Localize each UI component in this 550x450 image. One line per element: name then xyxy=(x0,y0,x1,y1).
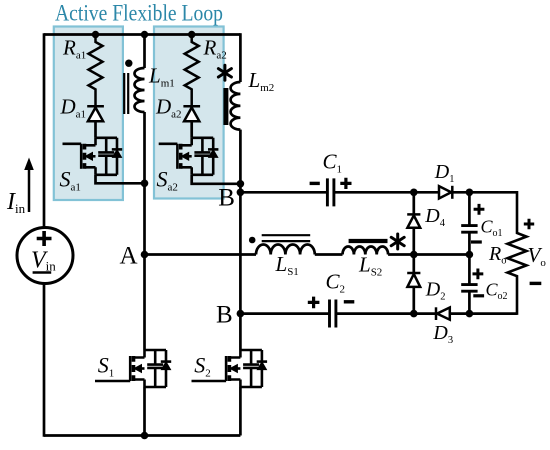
C1 minus sign xyxy=(310,182,320,185)
transformer Lm1 core xyxy=(124,73,128,114)
svg-text:A: A xyxy=(120,243,138,270)
node dot D2 bottom xyxy=(410,310,418,318)
wire Co2 bottom lead xyxy=(468,291,471,313)
inductor Lm1 winding xyxy=(135,68,145,112)
C2 minus sign xyxy=(344,300,355,303)
Vo minus sign xyxy=(530,282,542,285)
resistor Ra2 xyxy=(185,35,199,107)
node dot top Lm1 xyxy=(141,31,148,38)
capacitor C1 xyxy=(327,178,334,206)
node A dot xyxy=(141,251,149,259)
wire top corner to Lm2 xyxy=(239,33,242,82)
wire left rail lower xyxy=(43,284,46,437)
wire top to Lm1 xyxy=(143,35,146,69)
wire S2 source to bottom rail xyxy=(239,387,242,436)
wire S1 gate lead xyxy=(95,380,130,383)
Vo plus sign xyxy=(524,219,534,229)
highlight box around Ra1/Da1/Sa1 branch xyxy=(54,27,123,201)
wire C1 to D1 xyxy=(334,191,439,194)
resistor Ro with output rail xyxy=(508,191,527,315)
LS1 polarity dot xyxy=(249,237,256,244)
node dot Sa2 source junction xyxy=(237,180,245,188)
wire Co1 top lead xyxy=(468,192,471,225)
label Vin xyxy=(31,248,56,274)
wire S2 gate lead xyxy=(192,380,227,383)
diode D4 xyxy=(407,192,420,254)
capacitor C2 xyxy=(330,300,336,328)
node dot top Ra1 xyxy=(92,31,99,38)
voltage source Vin xyxy=(17,228,73,284)
highlight box around Ra2/Da2/Sa2 branch xyxy=(154,27,224,199)
diode D1 xyxy=(439,186,452,199)
transistor S2 xyxy=(226,350,267,387)
current arrow Iin xyxy=(24,158,34,213)
wire Co2 top lead xyxy=(468,255,471,285)
inductor LS2 core bar xyxy=(349,239,388,243)
Co2 plus sign xyxy=(473,269,484,280)
wire B row to C2 xyxy=(240,312,329,315)
wire node A to S1 drain xyxy=(143,255,146,351)
Co2 minus sign xyxy=(473,294,484,297)
transformer Lm1 polarity dot xyxy=(125,60,132,67)
inductor LS1 winding xyxy=(256,244,315,254)
node dot Co2 bottom xyxy=(466,310,474,318)
diode D3 xyxy=(436,307,450,320)
wire node B to C1 xyxy=(240,191,327,194)
node B bottom dot xyxy=(237,310,245,318)
wire B column through crossover xyxy=(239,192,242,313)
wire Sa2 source to node xyxy=(192,175,241,184)
wire C2 to D3 xyxy=(336,312,436,315)
wire A row left xyxy=(145,253,257,256)
node B top dot xyxy=(237,189,245,197)
wire between LS1 and LS2 xyxy=(315,253,343,256)
svg-text:B: B xyxy=(218,185,235,212)
diode Da2 xyxy=(183,106,200,121)
resistor Ra1 xyxy=(89,35,103,107)
transformer Lm2 polarity asterisk xyxy=(218,65,231,80)
wire node B to S2 drain xyxy=(239,314,242,350)
inductor Lm2 winding xyxy=(231,82,241,130)
node dot D4 bottom xyxy=(410,251,418,259)
diode D2 xyxy=(407,255,420,314)
capacitor Co2 xyxy=(461,285,477,292)
node dot top Ra2 xyxy=(188,31,195,38)
wire Sa1 gate lead xyxy=(63,143,82,146)
C2 plus sign xyxy=(308,297,320,309)
wire bottom rail xyxy=(44,434,240,437)
wire D1 to output top corner xyxy=(452,191,517,194)
node dot bottom rail S1 xyxy=(141,432,149,440)
wire D3 to output bottom corner xyxy=(450,312,517,315)
wire Sa1 source to node xyxy=(96,175,145,184)
diode Da1 xyxy=(87,106,104,121)
transistor Sa2 xyxy=(177,138,218,175)
wire S1 source to bottom rail xyxy=(143,387,146,436)
transistor Sa1 xyxy=(81,138,122,175)
transistor S1 xyxy=(130,350,171,387)
wire Co1 bottom lead xyxy=(468,232,471,254)
node dot D4 top xyxy=(410,189,418,197)
Co1 minus sign xyxy=(471,240,482,243)
svg-text:Active Flexible Loop: Active Flexible Loop xyxy=(55,1,223,26)
wire left rail upper xyxy=(43,33,46,227)
wire top rail xyxy=(44,33,240,36)
capacitor Co1 xyxy=(461,226,477,233)
node dot Co1 top xyxy=(466,189,474,197)
LS2 polarity asterisk xyxy=(391,234,404,249)
wire Da1 to Sa1 xyxy=(94,121,97,138)
transformer Lm2 core bar xyxy=(223,88,228,125)
node dot Sa1 source junction xyxy=(141,180,149,188)
wire Sa2 gate lead xyxy=(159,143,178,146)
svg-text:B: B xyxy=(216,301,233,328)
C1 plus sign xyxy=(340,178,351,189)
node dot Co middle xyxy=(466,251,474,259)
Co1 plus sign xyxy=(474,204,485,215)
wire Da2 to Sa2 xyxy=(190,121,193,138)
wire Lm1 to node A xyxy=(143,112,146,255)
wire LS2 to Co middle xyxy=(388,253,469,256)
inductor LS2 winding xyxy=(343,247,389,255)
inductor LS1 core lines xyxy=(262,235,311,241)
wire Lm2 to node B xyxy=(239,130,242,193)
